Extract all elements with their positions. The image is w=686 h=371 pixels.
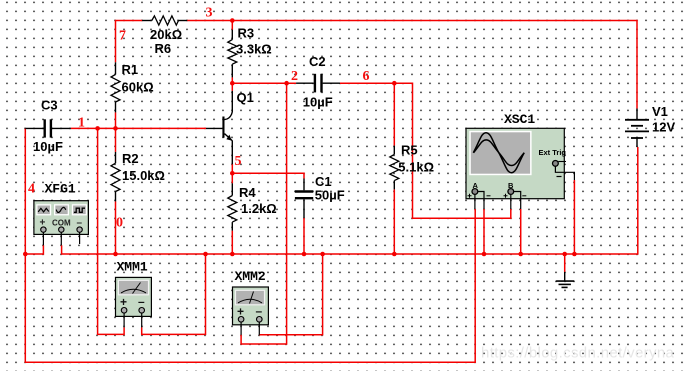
resistor R5 5.1k: [390, 146, 399, 190]
svg-text:60kΩ: 60kΩ: [122, 80, 154, 95]
wire node 5 horizontal (emitter to C1): [232, 173, 304, 178]
svg-text:C2: C2: [309, 54, 326, 69]
wire R4 bottom to ground rail: [231, 231, 233, 254]
wire R2 bottom to ground rail: [115, 201, 117, 254]
wire node 2 down to XMM2 plus: [241, 83, 287, 344]
junction signal tee at C3 left: [23, 252, 28, 257]
junction scope A minus on ground rail: [482, 252, 487, 257]
resistor R4 1.2k: [228, 183, 237, 230]
svg-text:+: +: [40, 218, 46, 229]
wire scope A minus to ground rail: [483, 209, 485, 254]
svg-text:XMM1: XMM1: [117, 260, 148, 275]
wire node 6 horizontal (C2 to scope B): [340, 83, 511, 218]
junction R4 on ground rail: [230, 252, 235, 257]
instrument XSC1 oscilloscope: [466, 128, 574, 209]
svg-text:R1: R1: [122, 62, 139, 77]
svg-text:1: 1: [78, 116, 85, 131]
wire scope B minus to ground rail: [520, 209, 522, 254]
ground: [556, 272, 574, 288]
junction ext trig on rail: [572, 252, 577, 257]
battery V1 12V: [625, 109, 649, 148]
svg-text:–: –: [138, 295, 145, 309]
wire C1 bottom to ground rail: [303, 218, 305, 254]
svg-text:Ext Trig: Ext Trig: [539, 148, 567, 157]
wire R5 bottom to ground rail: [393, 189, 395, 254]
svg-text:R4: R4: [239, 185, 256, 200]
junction XMM2 minus on ground rail: [320, 252, 325, 257]
svg-text:5.1kΩ: 5.1kΩ: [398, 160, 434, 175]
capacitor C3 10uF: [25, 119, 71, 137]
svg-text:R6: R6: [155, 41, 172, 56]
junction XMM1 minus on ground rail: [203, 252, 208, 257]
svg-text:R3: R3: [238, 26, 255, 41]
svg-text:10µF: 10µF: [33, 139, 63, 154]
wire R5 top stub: [393, 83, 395, 146]
svg-text:XMM2: XMM2: [235, 269, 266, 284]
node 3 junction: [230, 18, 235, 23]
svg-text:COM: COM: [52, 219, 71, 228]
wire XFG1 COM to ground rail: [62, 147, 638, 254]
svg-text:12V: 12V: [652, 120, 675, 135]
wire ground symbol stub: [564, 254, 566, 272]
svg-text:0: 0: [116, 216, 123, 231]
wire node 2 horizontal (to C2): [232, 82, 296, 84]
svg-text:2: 2: [291, 69, 298, 84]
svg-text:15.0kΩ: 15.0kΩ: [122, 168, 165, 183]
wire ext trig to ground rail: [573, 180, 575, 254]
junction scope B minus on ground rail: [518, 252, 523, 257]
svg-text:10µF: 10µF: [303, 95, 333, 110]
resistor R1 60k: [111, 62, 120, 112]
svg-text:4: 4: [28, 182, 35, 197]
svg-text:50µF: 50µF: [315, 188, 345, 203]
wire node 2 vertical stub (R3 to Q1 collector): [231, 77, 233, 91]
svg-text:https://blog.csdn.net/veryna: https://blog.csdn.net/veryna: [481, 345, 675, 362]
wire emitter to R4: [231, 164, 233, 183]
junction R2 on ground rail: [113, 252, 118, 257]
svg-text:+: +: [120, 295, 127, 309]
svg-text:–: –: [77, 218, 83, 229]
instrument XFG1 function generator: [34, 201, 89, 246]
svg-text:20kΩ: 20kΩ: [150, 27, 182, 42]
svg-text:7: 7: [119, 29, 126, 44]
node 5 junction at emitter: [230, 171, 235, 176]
node 6 junction at R5: [392, 81, 397, 86]
node 2 junction at XMM2 branch: [284, 81, 289, 86]
capacitor C2 10uF: [296, 74, 340, 93]
wire signal segment dot to XFG1 plus: [25, 245, 43, 254]
svg-text:A: A: [473, 181, 479, 190]
svg-text:V1: V1: [652, 104, 668, 119]
junction R5 on ground rail: [392, 252, 397, 257]
resistor R6 20k: [142, 16, 187, 25]
node 1 junction at R1/R2: [113, 126, 118, 131]
wire top rail left segment (node 7 to R6): [116, 21, 143, 63]
svg-text:1.2kΩ: 1.2kΩ: [241, 201, 277, 216]
capacitor C1 50uF: [295, 179, 313, 219]
wire XMM1 plus to node 1: [98, 128, 125, 334]
resistor R2 15k: [111, 152, 120, 202]
wire R1 bottom to node 1: [115, 112, 117, 128]
svg-text:3: 3: [206, 6, 213, 21]
svg-text:3.3kΩ: 3.3kΩ: [236, 42, 272, 57]
junction ground symbol on rail: [562, 252, 567, 257]
node 1 junction at XMM1 branch: [95, 126, 100, 131]
svg-text:Q1: Q1: [237, 90, 254, 105]
svg-text:R5: R5: [401, 143, 418, 158]
svg-text:XFG1: XFG1: [45, 182, 76, 197]
node 2 junction at Q1 collector: [230, 81, 235, 86]
svg-text:R2: R2: [122, 151, 139, 166]
wire R3 top stub: [231, 21, 233, 30]
junction C1 on ground rail: [302, 252, 307, 257]
wire XMM2 minus to ground rail: [259, 254, 322, 335]
svg-text:B: B: [508, 181, 514, 190]
svg-text:XSC1: XSC1: [504, 112, 535, 127]
wire node 1 horizontal (C3 to Q1 base): [71, 127, 206, 129]
svg-text:C3: C3: [41, 98, 58, 113]
transistor Q1 NPN: [206, 91, 232, 164]
svg-text:–: –: [256, 304, 263, 318]
instrument XMM2 multimeter: [233, 287, 269, 335]
resistor R3 3.3k: [228, 30, 237, 78]
instrument XMM1 multimeter: [116, 277, 152, 327]
svg-text:6: 6: [363, 69, 370, 84]
wire R2 top (node 1 to R2): [115, 128, 117, 152]
svg-text:+: +: [237, 305, 244, 319]
wire XMM1 minus to ground rail: [142, 254, 206, 334]
wire signal down-left to bottom rail to scope A: [25, 209, 475, 362]
wire top rail right segment (R6 to V1+): [187, 21, 637, 109]
wire C3 left to ground-rail tee: [24, 128, 26, 254]
svg-text:5: 5: [235, 154, 242, 169]
